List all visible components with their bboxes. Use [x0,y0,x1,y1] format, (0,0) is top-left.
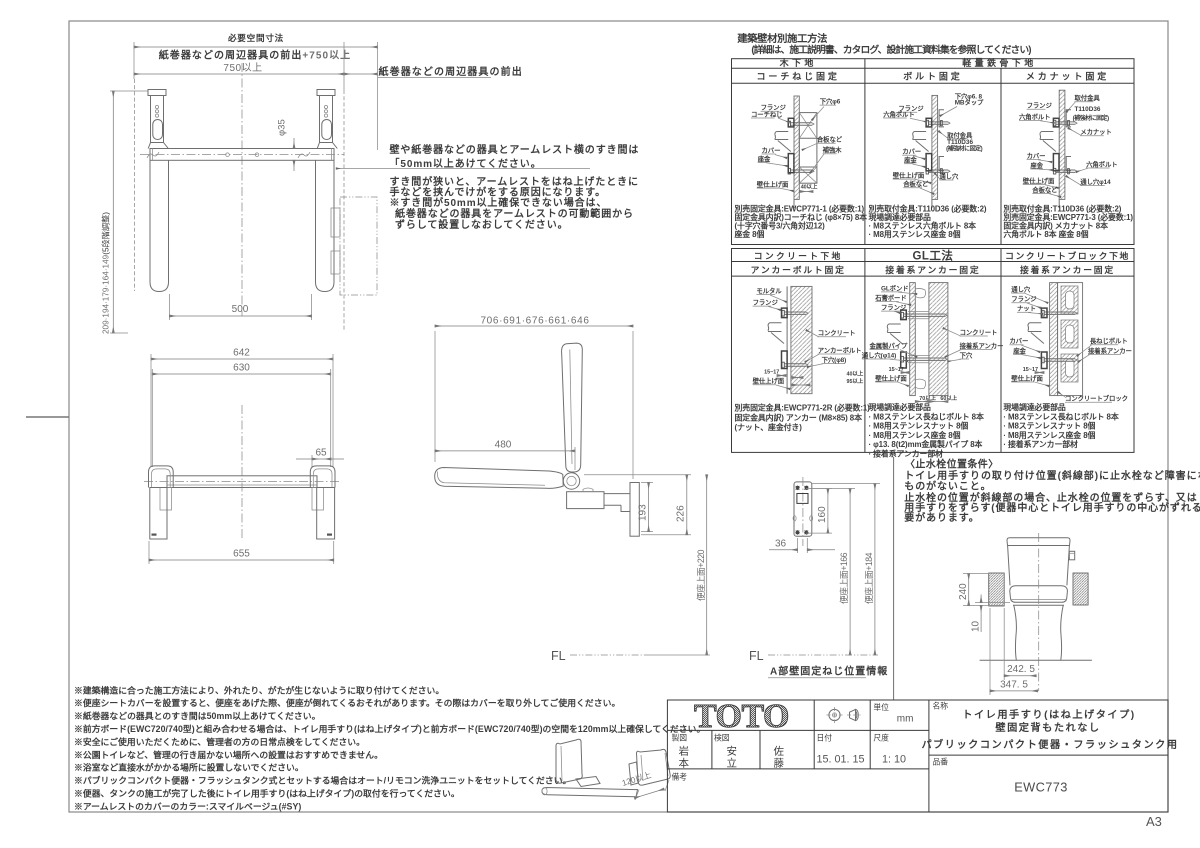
iso front board [637,749,671,785]
svg-text:単位: 単位 [873,702,889,712]
svg-text:750以上: 750以上 [223,62,262,74]
svg-text:固定金具内訳) アンカー (M8×85) 8本: 固定金具内訳) アンカー (M8×85) 8本 [735,412,863,422]
svg-text:壁仕上げ面: 壁仕上げ面 [875,373,907,382]
table 2: concrete substrates [732,249,1135,453]
leader arrow to gap [336,168,590,170]
svg-text:壁仕上げ面: 壁仕上げ面 [893,171,925,180]
left armrest zone (hatched) [989,573,1005,606]
svg-text:六角ボルト: 六角ボルト [1019,112,1050,121]
svg-text:便座上面+166: 便座上面+166 [838,552,849,604]
svg-text:347. 5: 347. 5 [1000,679,1028,690]
svg-text:要があります。: 要があります。 [904,511,979,524]
centre line vertical [241,63,243,316]
svg-text:別売固定金具:EWCP771-3 (必要数:1): 別売固定金具:EWCP771-3 (必要数:1) [1002,212,1133,222]
svg-text:A3: A3 [1146,814,1162,829]
hinge axis centre line [144,481,339,483]
svg-text:〈止水栓位置条件〉: 〈止水栓位置条件〉 [905,457,999,470]
svg-text:固定金具内訳) メカナット 8本: 固定金具内訳) メカナット 8本 [1003,221,1108,231]
cell: light steel substrate, bolt fixing [932,95,938,199]
svg-text:壁仕上げ面: 壁仕上げ面 [757,180,789,189]
svg-text:15~17: 15~17 [889,367,904,373]
svg-text:壁や紙巻器などの器具とアームレスト横のすき間は: 壁や紙巻器などの器具とアームレスト横のすき間は [390,143,640,156]
svg-text:500: 500 [232,304,249,315]
svg-text:便座上面+220: 便座上面+220 [695,549,706,601]
svg-text:※安全にご使用いただくために、管理者の方の日常点検をしてくだ: ※安全にご使用いただくために、管理者の方の日常点検をしてください。 [74,736,365,747]
svg-text:120以上: 120以上 [621,771,652,788]
svg-text:下穴φ6: 下穴φ6 [820,97,841,106]
svg-text:1: 10: 1: 10 [882,754,906,766]
svg-text:フランジ: フランジ [1027,102,1053,110]
svg-text:GLボンド: GLボンド [881,283,909,292]
svg-text:別売取付金具:T110D36 (必要数:2): 別売取付金具:T110D36 (必要数:2) [1002,204,1121,214]
dim 242.5 [1003,608,1005,680]
screw marks [796,486,800,490]
svg-text:座金: 座金 [904,155,917,164]
hinge [563,473,579,489]
svg-text:座金: 座金 [758,154,771,163]
left armrest (folded forward) [150,160,169,291]
svg-text:· M8ステンレス長ねじボルト 8本: · M8ステンレス長ねじボルト 8本 [1003,411,1118,421]
title block [667,700,1168,812]
svg-text:六角ボルト 8本 座金 8個: 六角ボルト 8本 座金 8個 [1003,229,1088,239]
svg-text:壁仕上げ面: 壁仕上げ面 [1023,176,1055,185]
centre line [1038,533,1040,691]
svg-text:480: 480 [495,440,512,451]
folded armrest bar [167,476,317,488]
cell: concrete substrate, anchor bolt fixing [786,286,788,393]
svg-text:紙巻器などの周辺器具の前出: 紙巻器などの周辺器具の前出 [379,65,523,78]
svg-text:取付金具: 取付金具 [1075,93,1101,102]
svg-text:· 接着系アンカー部材: · 接着系アンカー部材 [1003,439,1078,449]
svg-text:· M8ステンレスナット 8個: · M8ステンレスナット 8個 [1003,421,1095,431]
svg-text:合板など: 合板など [816,135,843,144]
svg-text:※すき間が50mm以上確保できない場合は、: ※すき間が50mm以上確保できない場合は、 [390,196,608,209]
svg-text:金属製パイプ: 金属製パイプ [869,341,908,350]
svg-text:コーチねじ: コーチねじ [751,110,782,118]
svg-text:カバー: カバー [1009,337,1028,345]
svg-text:コーチねじ固定: コーチねじ固定 [757,71,840,82]
svg-text:現場調達必要部品: 現場調達必要部品 [869,402,932,412]
svg-text:手などを挟んでけがをする原因になります。: 手などを挟んでけがをする原因になります。 [390,186,607,199]
svg-text:座金 8個: 座金 8個 [734,229,765,239]
svg-text:160: 160 [817,506,828,523]
dim 655 [148,541,150,564]
seat base line [1013,604,1064,606]
left hinge cover [149,466,174,488]
centre line [241,405,243,538]
svg-text:六角ボルト: 六角ボルト [1086,159,1117,168]
svg-text:(補強材に固定): (補強材に固定) [1073,114,1109,122]
dim 480 [435,450,575,452]
svg-text:FL: FL [551,649,566,663]
svg-text:アンカーボルト固定: アンカーボルト固定 [751,264,846,275]
svg-text:すき間が狭いと、アームレストをはね上げたときに: すき間が狭いと、アームレストをはね上げたときに [390,175,639,188]
svg-text:壁仕上げ面: 壁仕上げ面 [753,376,785,385]
svg-text:用手すりをずらす(便器中心とトイレ用手すりの中心がずれる)必: 用手すりをずらす(便器中心とトイレ用手すりの中心がずれる)必 [903,501,1200,514]
screw heads on beam [226,153,230,157]
svg-text:※便器、タンクの施工が完了した後にトイレ用手すり(はね上げタ: ※便器、タンクの施工が完了した後にトイレ用手すり(はね上げタイプ)の取付を行って… [74,788,460,799]
break marks [147,152,159,158]
svg-text:15~17: 15~17 [764,370,779,376]
svg-text:トイレ用手すり(はね上げタイプ): トイレ用手すり(はね上げタイプ) [962,708,1135,721]
left wall plate [150,488,167,540]
svg-text:通し穴φ14: 通し穴φ14 [1080,177,1111,186]
dim line 750以上 [134,73,344,75]
dim 500 [169,294,171,320]
svg-text:※便座シートカバーを設置すると、便座をあげた際、便座が倒れて: ※便座シートカバーを設置すると、便座をあげた際、便座が倒れてくるおそれがあります… [74,697,620,708]
svg-text:下穴(φ8): 下穴(φ8) [822,355,847,364]
right mounting post [317,90,335,96]
svg-text:· M8ステンレス長ねじボルト 8本: · M8ステンレス長ねじボルト 8本 [869,411,984,421]
svg-text:軽量鉄骨下地: 軽量鉄骨下地 [962,57,1036,68]
svg-text:別売固定金具:EWCP771-2R (必要数:1): 別売固定金具:EWCP771-2R (必要数:1) [734,403,871,413]
extension lines [133,42,135,79]
cell: light steel substrate, mechanical nut fixing [1059,90,1065,199]
svg-text:φ35: φ35 [277,119,288,136]
cell: concrete block substrate, adhesive anchor fixing [1050,283,1058,396]
right armrest zone (hatched) [1073,573,1088,605]
svg-text:トイレ用手すりの取り付け位置(斜線部)に止水栓など障害になる: トイレ用手すりの取り付け位置(斜線部)に止水栓など障害になる [904,469,1200,482]
paper holder keep-out box [340,197,377,295]
svg-text:取付金具: 取付金具 [947,130,973,139]
svg-text:紙巻器などの器具をアームレストの可動範囲から: 紙巻器などの器具をアームレストの可動範囲から [395,207,634,220]
dim 226 [584,474,691,476]
svg-text:※パブリックコンパクト便器・フラッシュタンク式とセットする場: ※パブリックコンパクト便器・フラッシュタンク式とセットする場合はオート/リモコン… [74,775,571,786]
svg-text:ずらして設置しなおしてください。: ずらして設置しなおしてください。 [395,218,569,231]
svg-text:ものがないこと。: ものがないこと。 [904,480,991,493]
iso board bracket [629,762,639,785]
svg-text:建築壁材別施工方法: 建築壁材別施工方法 [736,32,827,45]
dim 36 [797,538,799,553]
svg-text:40以上: 40以上 [847,370,864,378]
dim 160 [806,488,832,490]
svg-text:※建築構造に合った施工方法により、外れたり、がたが生じないよ: ※建築構造に合った施工方法により、外れたり、がたが生じないように取り付けてくださ… [74,684,444,695]
dim 120以上 [635,780,669,800]
svg-text:(十字穴番号3/六角対辺12): (十字穴番号3/六角対辺12) [735,221,826,231]
right armrest (folded forward) [316,160,335,291]
svg-text:※アームレストのカバーのカラー:スマイルベージュ(#SY): ※アームレストのカバーのカラー:スマイルベージュ(#SY) [74,801,301,811]
cell: wood substrate, coach screw fixing [794,96,799,199]
svg-text:現場調達必要部品: 現場調達必要部品 [1003,402,1066,412]
svg-text:木下地: 木下地 [779,57,817,68]
seat [1010,586,1068,598]
svg-text:T110D36: T110D36 [947,139,973,146]
svg-text:カバー: カバー [762,146,781,154]
dim 630 [152,373,330,375]
svg-text:必要空間寸法: 必要空間寸法 [227,32,284,43]
svg-text:別売取付金具:T110D36 (必要数:2): 別売取付金具:T110D36 (必要数:2) [868,204,987,214]
svg-text:補強木: 補強木 [822,145,843,154]
wall plate (side) [630,483,639,537]
toilet tank [1007,538,1070,546]
svg-text:ナット: ナット [1017,305,1036,313]
svg-text:· M8用ステンレス座金 8個: · M8用ステンレス座金 8個 [1003,430,1095,440]
flush button [1069,551,1074,560]
svg-text:接着系アンカー: 接着系アンカー [1088,346,1132,355]
raised armrest [562,343,583,472]
dim 65 [312,458,331,460]
svg-text:コンクリート: コンクリート [818,328,856,337]
svg-text:· M8用ステンレス座金 8個: · M8用ステンレス座金 8個 [869,229,961,239]
svg-text:接着系アンカー: 接着系アンカー [960,341,1004,350]
folded armrest [435,468,564,489]
svg-text:合板など: 合板など [1031,185,1058,194]
svg-text:カバー: カバー [1027,152,1046,160]
separator line [893,457,895,700]
svg-text:630: 630 [233,363,250,374]
right wall plate [317,488,335,540]
svg-text:別売固定金具:EWCP771-1 (必要数:1): 別売固定金具:EWCP771-1 (必要数:1) [734,204,865,214]
svg-text:メカナット固定: メカナット固定 [1026,71,1109,82]
wall beam (grab bar) [150,149,334,161]
svg-text:壁仕上げ面: 壁仕上げ面 [1011,373,1043,382]
svg-text:(詳細は、施工説明書、カタログ、設計施工資料集を参照してくだ: (詳細は、施工説明書、カタログ、設計施工資料集を参照してください) [751,43,1031,56]
svg-text:EWC773: EWC773 [1014,780,1068,795]
svg-text:フランジ: フランジ [1011,295,1037,303]
svg-text:ボルト固定: ボルト固定 [903,71,963,82]
svg-text:備考: 備考 [672,772,688,782]
svg-text:日付: 日付 [817,733,833,743]
first-angle projection symbol [829,709,840,720]
svg-text:mm: mm [897,714,914,725]
bracket body [567,492,604,509]
dim 便座上面+220 [706,475,708,655]
svg-text:接着系アンカー固定: 接着系アンカー固定 [885,264,980,275]
svg-text:安: 安 [727,745,738,758]
svg-text:通し穴(φ14): 通し穴(φ14) [862,350,896,359]
svg-text:209·194·179·164·149(5段階調整): 209·194·179·164·149(5段階調整) [101,212,111,334]
svg-text:フランジ: フランジ [753,299,779,307]
extension lines [150,354,152,467]
bold square hole [797,494,808,504]
svg-text:TOTO: TOTO [694,698,789,735]
svg-text:706·691·676·661·646: 706·691·676·661·646 [480,316,589,327]
dim line 必要空間 [134,46,378,48]
cell: GL construction, adhesive anchor fixing [910,283,916,396]
svg-text:コンクリートブロック: コンクリートブロック [1065,394,1128,403]
svg-text:座金: 座金 [1013,346,1026,355]
svg-text:FL: FL [749,649,764,663]
svg-text:· M8ステンレス六角ボルト 8本: · M8ステンレス六角ボルト 8本 [869,221,977,231]
svg-text:※紙巻器などの器具とのすき間は50mm以上あけてください。: ※紙巻器などの器具とのすき間は50mm以上あけてください。 [74,710,320,721]
svg-text:長ねじボルト: 長ねじボルト [1090,336,1128,345]
svg-text:「50mm以上あけてください。: 「50mm以上あけてください。 [390,157,542,170]
svg-text:石膏ボード: 石膏ボード [874,293,906,302]
right hinge block [312,488,324,511]
beam centre line [140,154,344,156]
svg-text:接着系アンカー固定: 接着系アンカー固定 [1020,264,1115,275]
svg-text:便座上面+184: 便座上面+184 [863,552,874,604]
svg-text:通し穴: 通し穴 [1011,285,1031,294]
left edge centre mark [26,416,69,418]
svg-text:MBタップ: MBタップ [955,98,984,107]
table 1: wood / light steel substrates [732,59,1135,245]
svg-text:現場調達必要部品: 現場調達必要部品 [869,212,932,222]
svg-text:36: 36 [775,539,787,550]
svg-text:226: 226 [676,505,687,522]
svg-text:アンカーボルト: アンカーボルト [818,345,862,354]
svg-text:65: 65 [315,448,327,459]
svg-text:紙巻器などの周辺器具の前出+750以上: 紙巻器などの周辺器具の前出+750以上 [159,49,351,62]
svg-text:242. 5: 242. 5 [1007,664,1035,675]
dim 10 [975,602,1010,604]
svg-text:655: 655 [233,549,250,560]
svg-text:コンクリート: コンクリート [960,327,998,336]
vertical dim 209·194·179·164·149 (5段階調整) [112,91,114,333]
svg-text:· M8用ステンレスナット 8個: · M8用ステンレスナット 8個 [869,421,969,431]
dim 347.5 [989,608,991,695]
svg-text:240: 240 [958,583,969,600]
svg-text:六角ボルト: 六角ボルト [883,109,914,118]
svg-text:10: 10 [970,620,981,632]
svg-text:岩: 岩 [679,745,690,758]
svg-text:藤: 藤 [774,758,785,770]
svg-text:通し穴: 通し穴 [939,171,959,180]
right hinge cover [310,466,335,488]
svg-text:15. 01. 15: 15. 01. 15 [817,754,865,766]
svg-text:フランジ: フランジ [881,304,907,312]
dim φ35 [293,138,295,149]
floor line [980,659,1092,661]
svg-text:70以上: 70以上 [919,394,936,402]
svg-text:座金: 座金 [1030,160,1043,169]
svg-text:60以上: 60以上 [940,394,957,402]
svg-text:検図: 検図 [714,733,730,743]
svg-text:カバー: カバー [902,148,921,156]
svg-text:品番: 品番 [933,757,949,767]
svg-text:(ナット、座金付き): (ナット、座金付き) [735,422,803,432]
svg-text:コンクリート下地: コンクリート下地 [754,250,843,261]
svg-text:コンクリートブロック下地: コンクリートブロック下地 [1005,250,1130,261]
svg-text:※前方ボード(EWC720/740型)と組み合わせる場合は、: ※前方ボード(EWC720/740型)と組み合わせる場合は、トイレ用手すり(はね… [74,723,705,734]
svg-text:下穴: 下穴 [960,350,973,359]
svg-text:642: 642 [233,348,250,359]
dim 便座上面+166 [810,488,855,490]
svg-text:(補強材に固定): (補強材に固定) [946,145,982,153]
bowl base [1014,605,1017,660]
svg-text:尺度: 尺度 [873,733,889,743]
svg-text:193: 193 [638,504,649,521]
iso armrest bar [542,788,638,797]
svg-text:本: 本 [679,757,690,770]
svg-text:40以上: 40以上 [801,182,818,190]
svg-text:壁固定背もたれなし: 壁固定背もたれなし [995,721,1100,734]
svg-text:GL工法: GL工法 [912,249,953,263]
iso hinge bracket [576,777,600,787]
svg-text:名称: 名称 [933,700,949,710]
svg-text:佐: 佐 [774,745,785,758]
iso wall plate [556,739,582,783]
svg-text:製図: 製図 [672,733,688,743]
dim 便座上面+184 [812,483,880,485]
svg-text:T110D36: T110D36 [1075,106,1101,113]
svg-text:メカナット: メカナット [1080,128,1111,136]
left hinge block [160,488,172,511]
svg-text:合板など: 合板など [902,179,929,188]
svg-text:95以上: 95以上 [847,377,864,385]
svg-text:※公園トイレなど、管理の行き届かない場所への設置はおすすめで: ※公園トイレなど、管理の行き届かない場所への設置はおすすめできません。 [74,749,383,760]
A-part wall fixing screw position detail [794,482,812,536]
support arm to wall [604,493,630,495]
svg-text:· 接着系アンカー部材: · 接着系アンカー部材 [869,449,944,459]
svg-text:※浴室など直接水がかかる場所に設置しないでください。: ※浴室など直接水がかかる場所に設置しないでください。 [74,762,304,773]
dim 前出 right stub [344,73,378,75]
svg-text:止水栓の位置が斜線部の場合、止水栓の位置をずらす、又はトイレ: 止水栓の位置が斜線部の場合、止水栓の位置をずらす、又はトイレ [904,491,1200,504]
left mounting post [148,90,166,96]
svg-text:A部壁固定ねじ位置情報: A部壁固定ねじ位置情報 [770,665,888,678]
svg-text:立: 立 [727,757,738,770]
dim 240 [963,573,988,575]
dim 642 [151,358,333,360]
svg-text:パブリックコンパクト便器・フラッシュタンク用: パブリックコンパクト便器・フラッシュタンク用 [921,738,1178,751]
svg-text:固定金具内訳)コーチねじ (φ8×75) 8本: 固定金具内訳)コーチねじ (φ8×75) 8本 [735,212,868,222]
svg-text:· φ13. 8(t2)mm金属製パイプ 8本: · φ13. 8(t2)mm金属製パイプ 8本 [869,439,983,449]
dim 193 [641,482,653,484]
svg-text:· M8用ステンレス座金 8個: · M8用ステンレス座金 8個 [869,430,961,440]
svg-text:15~17: 15~17 [1023,367,1038,373]
svg-text:モルタル: モルタル [756,286,782,295]
